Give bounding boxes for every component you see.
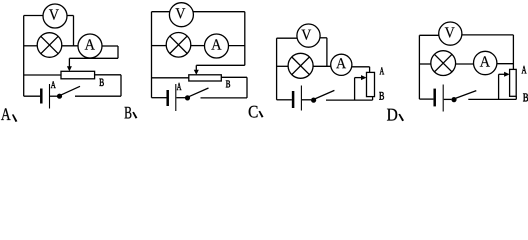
battery negative plate D xyxy=(433,89,436,107)
lamp L1 cross D xyxy=(434,54,452,72)
wire: rheostat right drop B xyxy=(246,77,248,98)
wiper arrowhead B xyxy=(194,70,199,75)
rheostat body R (option C) xyxy=(367,72,375,96)
ideographic comma after option letter D xyxy=(398,114,404,121)
wire: battery to switch A xyxy=(50,95,58,97)
rheostat label B (option D) xyxy=(523,93,528,101)
ammeter A (option C) xyxy=(331,54,352,75)
wire: battery to switch D xyxy=(444,98,452,100)
wire: bottom left to battery B xyxy=(152,97,167,99)
wiper arrow stem D xyxy=(499,73,505,75)
wire: rheostat bottom connector D xyxy=(515,96,517,99)
wiper arrow stem B xyxy=(195,65,197,70)
lamp L1 cross C xyxy=(292,57,310,75)
rheostat label B (option C) xyxy=(379,92,384,100)
wire: V right drop C xyxy=(326,38,328,67)
wire: switch to right bottom A xyxy=(75,95,121,97)
battery positive plate B xyxy=(175,84,177,111)
label V text (option C) xyxy=(301,30,311,40)
wire: V right lead C xyxy=(320,37,327,39)
rheostat label A (option A) xyxy=(51,81,56,88)
label V text (option B) xyxy=(175,8,185,18)
wire: left rail A xyxy=(23,16,25,97)
wire: rheostat right end A xyxy=(95,74,121,76)
wiper arrow stem C xyxy=(355,77,362,79)
wire: rail to lamp C xyxy=(277,65,289,67)
wire: ammeter out D xyxy=(497,63,514,65)
rheostat body R (option A) xyxy=(61,71,95,79)
lamp L1 (option A) xyxy=(37,33,62,58)
switch blade D xyxy=(455,91,476,99)
wire: wiper drop C xyxy=(354,78,356,101)
battery negative plate C xyxy=(292,91,295,108)
switch pivot dot B xyxy=(185,95,190,100)
wire: ammeter out B xyxy=(229,45,245,47)
wire: rail to lamp B xyxy=(152,45,167,47)
wire: V right drop D xyxy=(512,35,514,70)
wire: battery to switch C xyxy=(302,99,311,101)
wire: rail to rheostat left end A xyxy=(24,74,61,76)
wire: left rail C xyxy=(276,38,278,100)
ammeter A (option A) xyxy=(78,34,102,58)
rheostat label B (option A) xyxy=(99,79,103,86)
label A text (option C ammeter) xyxy=(336,58,346,68)
label V text (option A) xyxy=(49,9,59,19)
wire: ammeter out A xyxy=(102,45,118,47)
wiper arrowhead A xyxy=(67,66,72,71)
wiper arrowhead D xyxy=(504,72,510,77)
option letter C xyxy=(249,106,258,118)
wire: V right lead D xyxy=(462,34,514,36)
wire: V right lead A xyxy=(67,15,73,17)
wire: lamp to ammeter A xyxy=(62,45,78,47)
ammeter A (option D) xyxy=(474,51,497,74)
wire: bottom left to battery D xyxy=(419,98,433,100)
wire: battery to switch B xyxy=(176,97,185,99)
battery positive plate D xyxy=(442,85,444,112)
rheostat body R (option D) xyxy=(510,69,517,96)
lamp L1 (option B) xyxy=(166,33,191,58)
rheostat body R (option B) xyxy=(189,75,222,81)
rheostat label A (option D) xyxy=(522,66,527,73)
switch pivot dot A xyxy=(57,94,62,99)
switch pivot dot D xyxy=(451,97,456,102)
wire: bottom left to battery A xyxy=(24,95,41,97)
battery negative plate A xyxy=(40,89,43,104)
voltmeter V (option B) xyxy=(169,3,193,27)
wire: V left lead C xyxy=(277,37,297,39)
wire: rheostat right end B xyxy=(221,76,247,78)
rheostat label A (option B) xyxy=(177,83,182,90)
wire: wiper drop D xyxy=(498,74,500,99)
label A text (option B ammeter) xyxy=(211,39,221,49)
battery positive plate C xyxy=(300,86,302,111)
battery negative plate B xyxy=(166,90,169,106)
wire: rail to lamp D xyxy=(419,63,430,65)
switch blade B xyxy=(189,88,209,97)
wiper arrow stem A xyxy=(68,58,70,66)
voltmeter V (option D) xyxy=(439,22,462,45)
wire: switch to right bottom C xyxy=(326,99,373,101)
wire: rheostat right drop A xyxy=(120,75,122,96)
option letter A xyxy=(1,108,11,120)
lamp L1 cross B xyxy=(170,36,187,53)
wire: lamp to ammeter B xyxy=(191,45,205,47)
wire: V left lead B xyxy=(152,11,170,13)
switch blade C xyxy=(315,90,335,99)
option letter D xyxy=(387,109,397,121)
wire: ammeter out C xyxy=(352,66,370,68)
switch pivot dot C xyxy=(311,98,316,103)
wire: rail to lamp A xyxy=(24,45,38,47)
wire: left rail B xyxy=(151,12,153,98)
lamp L1 (option D) xyxy=(431,51,456,76)
ideographic comma after option letter B xyxy=(132,112,137,119)
wiper arrowhead C xyxy=(361,75,367,80)
ideographic comma after option letter C xyxy=(259,111,264,118)
wire: V right lead B xyxy=(193,11,244,13)
wire: left rail D xyxy=(418,35,420,99)
rheostat label A (option C) xyxy=(380,67,384,74)
wire: V left lead A xyxy=(24,15,43,17)
label A text (option A ammeter) xyxy=(85,39,95,49)
label V text (option D) xyxy=(445,27,455,37)
wire: V right drop B xyxy=(244,12,246,66)
wire: wiper feed line A xyxy=(69,57,118,59)
option letter B xyxy=(124,107,131,119)
voltmeter V (option C) xyxy=(297,24,320,47)
wire: lamp to ammeter C xyxy=(313,65,331,67)
lamp L1 cross xyxy=(41,36,58,53)
rheostat label B (option B) xyxy=(226,80,230,87)
lamp L1 (option C) xyxy=(288,53,313,78)
wire: drop to wiper feed A xyxy=(117,46,119,58)
wire: drop to rheostat top C xyxy=(369,67,371,73)
wire: switch to right bottom B xyxy=(201,97,248,99)
switch blade A xyxy=(61,86,81,95)
wire: rail to rheostat left end B xyxy=(152,77,189,79)
wire: wiper feed line B xyxy=(196,64,245,66)
wire: V right drop to lamp-ammeter node A xyxy=(73,16,75,46)
wire: bottom left to battery C xyxy=(277,99,292,101)
wire: lamp to ammeter D xyxy=(456,63,474,65)
ideographic comma after option letter A xyxy=(12,114,18,122)
label A text (option D ammeter) xyxy=(480,56,490,66)
battery positive plate A xyxy=(49,84,51,109)
wire: switch to right bottom D xyxy=(468,98,516,100)
wire: V left lead D xyxy=(419,34,438,36)
wire: rheostat bottom connector C xyxy=(372,97,374,101)
ammeter A (option B) xyxy=(205,34,229,58)
voltmeter V (option A) xyxy=(43,4,67,28)
